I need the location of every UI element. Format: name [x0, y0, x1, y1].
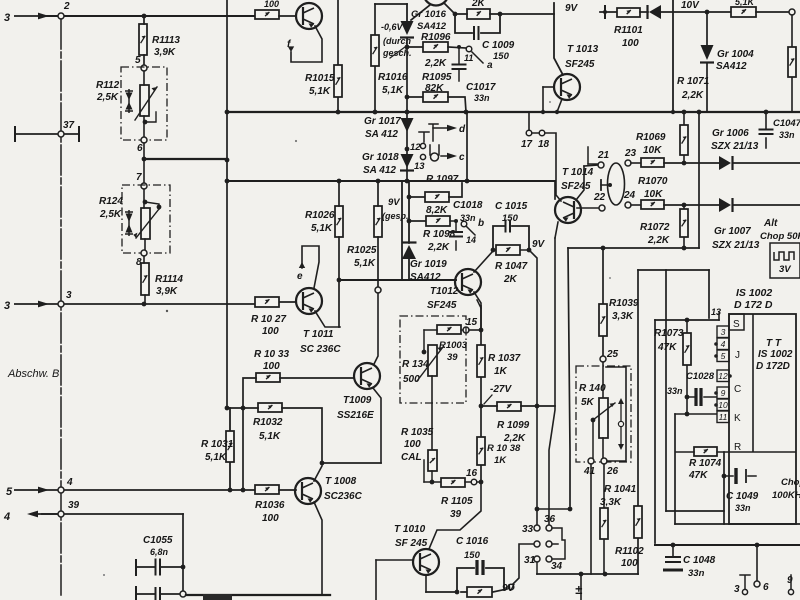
wire R1072 leads [683, 205, 685, 248]
resistor bottom cal [467, 587, 492, 597]
svg-text:4: 4 [66, 477, 73, 488]
resistor R1031 [226, 431, 234, 462]
svg-text:d: d [459, 124, 466, 135]
svg-text:17: 17 [521, 139, 533, 150]
wire to d arrow [433, 127, 448, 129]
capacitor C1055 [156, 559, 161, 576]
resistor R1074 [694, 447, 717, 456]
wire T1012 emitter to x481 [477, 300, 481, 308]
svg-text:3: 3 [4, 12, 10, 24]
terminal 3 bottom [740, 575, 750, 589]
wire to c arrow [441, 155, 448, 157]
wire C1049 leads [724, 475, 756, 477]
svg-text:Gr 1004: Gr 1004 [717, 49, 754, 60]
wire R1035 bottom [431, 471, 433, 482]
wire T1012 emitter down [474, 292, 481, 330]
svg-text:4: 4 [721, 339, 726, 349]
svg-text:8,2K: 8,2K [426, 205, 448, 216]
resistor 5,1K top [731, 7, 756, 17]
wire row39 arrow left [27, 511, 58, 518]
wire R1047 leads [493, 249, 529, 251]
svg-text:3: 3 [721, 327, 726, 337]
svg-text:b: b [478, 218, 484, 229]
wire row2 right [733, 204, 800, 206]
svg-text:R1072: R1072 [640, 222, 670, 233]
resistor R1105 [441, 478, 465, 487]
svg-text:SF245: SF245 [561, 181, 591, 192]
junction x407 y181 [405, 179, 410, 184]
junction pin11 row [685, 412, 690, 417]
transistor T1013 [554, 74, 580, 100]
wire pot bottom to 26 [602, 438, 604, 458]
svg-text:39: 39 [447, 352, 458, 363]
wire x638 vertical R1102 [637, 270, 639, 574]
svg-text:Abschw. B: Abschw. B [7, 368, 59, 380]
resistor R1027 [255, 297, 279, 307]
svg-text:R1016: R1016 [378, 72, 408, 83]
svg-text:2,2K: 2,2K [647, 235, 670, 246]
junction bus x766 [764, 110, 769, 115]
IC S box [729, 314, 744, 330]
wire pin13 [718, 313, 720, 320]
arrowhead e [299, 262, 305, 268]
svg-text:33n: 33n [474, 93, 490, 103]
svg-text:SA 412: SA 412 [365, 129, 398, 140]
svg-text:100: 100 [622, 38, 639, 49]
svg-text:T 1010: T 1010 [394, 524, 426, 535]
svg-text:c: c [459, 152, 465, 163]
IC pin boxes [717, 326, 729, 338]
wire R1098 right [450, 220, 456, 222]
svg-text:SF245: SF245 [427, 300, 457, 311]
svg-text:5,1K: 5,1K [309, 86, 331, 97]
capacitor C1047 [759, 130, 774, 135]
wire T-top emitter loop [291, 26, 322, 62]
svg-text:2,5K: 2,5K [99, 209, 122, 220]
svg-text:R 1099: R 1099 [497, 420, 530, 431]
svg-text:T T: T T [766, 338, 782, 349]
junction C1018 top [454, 219, 458, 223]
svg-text:SF245: SF245 [565, 59, 595, 70]
wire bottom bold y595 [186, 594, 330, 596]
svg-text:Gr 1018: Gr 1018 [362, 152, 399, 163]
svg-text:5,1K: 5,1K [382, 85, 404, 96]
transistor T1005 clipped at top edge [424, 0, 449, 6]
svg-text:21: 21 [597, 150, 610, 161]
svg-text:K: K [734, 413, 741, 424]
switch U loop [430, 145, 439, 155]
transistor T1006 top [296, 3, 322, 29]
wire vertical x407 mid [406, 38, 408, 181]
svg-text:R1070: R1070 [638, 176, 668, 187]
wire x424 up [423, 460, 425, 482]
svg-text:5,1K: 5,1K [354, 258, 376, 269]
node 5 open circle [141, 65, 147, 71]
svg-text:R 1105: R 1105 [441, 496, 473, 507]
wire x792 vertical [791, 15, 793, 112]
wire R1099 leads [481, 405, 555, 407]
svg-text:150: 150 [493, 51, 510, 62]
svg-text:e: e [297, 271, 303, 282]
svg-text:22: 22 [593, 192, 606, 203]
svg-text:5,1K: 5,1K [259, 431, 281, 442]
bus y112 main horizontal [227, 111, 800, 113]
svg-text:100: 100 [621, 558, 638, 569]
arrowhead f [288, 46, 294, 52]
node 6 open circle [141, 137, 147, 143]
junction x407 y97 [405, 95, 410, 100]
svg-text:SA412: SA412 [417, 21, 447, 32]
wire pot R112 leads [143, 71, 145, 137]
capacitor C1047 branch [765, 112, 767, 148]
svg-text:C1055: C1055 [143, 535, 173, 546]
small bar terminal y185 [600, 180, 602, 190]
varistor symbol R112 [125, 89, 133, 113]
junction 2K left [453, 12, 458, 17]
junction x684 row1 [682, 161, 687, 166]
wire x655 down long [654, 320, 656, 543]
svg-text:R 1071: R 1071 [677, 76, 710, 87]
wire T1008 collector [314, 466, 322, 481]
wire tap down to 41 [592, 420, 594, 458]
resistor R1041 [600, 508, 608, 539]
terminal tick left of R1101 [604, 6, 606, 18]
svg-text:C 1016: C 1016 [456, 536, 489, 547]
node 16 open circle [471, 479, 477, 485]
svg-text:R 1037: R 1037 [488, 353, 521, 364]
svg-text:R 1031: R 1031 [201, 439, 234, 450]
wire input row2 with arrow [14, 13, 49, 20]
svg-text:IS 1002: IS 1002 [758, 349, 793, 360]
resistor R1098 [426, 216, 450, 226]
junction x227 y159 [225, 158, 230, 163]
svg-text:C 1049: C 1049 [726, 491, 759, 502]
resistor 10K row1 [641, 158, 664, 167]
wire R1032 right corner down [282, 408, 322, 463]
wire T1005 emitter to Gr1016 [411, 5, 430, 20]
resistor R1101 [617, 8, 640, 17]
terminal circle 9 [788, 589, 793, 594]
wire R1003 left [424, 329, 437, 331]
svg-text:4: 4 [3, 511, 10, 523]
wire T1008 emitter down [314, 502, 322, 595]
node b open circle [461, 221, 467, 227]
junction bus x227 [225, 110, 230, 115]
resistor R1039 [599, 304, 607, 336]
switch blade a [472, 52, 483, 63]
wire R1096 left [407, 46, 423, 48]
junction bus x466 [464, 110, 469, 115]
wire R1095 right [448, 97, 466, 112]
resistor R1069 vertical [680, 125, 688, 155]
switch circle mid-left [534, 541, 540, 547]
node 23 open circle [625, 160, 631, 166]
junction x707 y12 [705, 10, 710, 15]
svg-text:41: 41 [583, 466, 596, 477]
svg-text:31: 31 [524, 555, 536, 566]
wire R1073 leads [686, 320, 688, 414]
terminal bar bottom cap [135, 587, 137, 600]
wire row1 to Gr1006 [664, 162, 719, 164]
svg-text:150: 150 [464, 550, 481, 561]
svg-text:2: 2 [63, 1, 70, 12]
resistor 100 top [255, 10, 279, 19]
junction y592 x457 [455, 590, 460, 595]
speck noise [295, 140, 297, 142]
wire R1031 vertical [229, 408, 231, 490]
wire node24 to 10K2 [631, 204, 641, 206]
svg-text:Alt: Alt [763, 218, 778, 229]
resistor R1003 [437, 325, 461, 334]
svg-text:5: 5 [721, 351, 726, 361]
svg-text:9V: 9V [532, 239, 546, 250]
wire to right node [756, 11, 789, 13]
node 39 open circle [58, 511, 64, 517]
wire x378 vertical [377, 181, 379, 287]
node 41 open circle [588, 458, 594, 464]
svg-text:T1012: T1012 [430, 286, 459, 297]
pot R112 wiper diagonal [135, 87, 157, 120]
pot R112 tap wire [145, 112, 156, 122]
wire x376 down [375, 560, 377, 600]
svg-text:SA 412: SA 412 [363, 165, 396, 176]
wire T1013 base down [542, 87, 544, 112]
svg-text:R1003: R1003 [439, 340, 468, 351]
junction R1073 top [685, 318, 690, 323]
junction bus x684 [682, 110, 687, 115]
wire between 17 18 [532, 132, 539, 134]
resistor R1114 [141, 263, 149, 295]
wire node41 down [590, 464, 592, 574]
svg-text:D 172 D: D 172 D [734, 299, 773, 311]
svg-text:13: 13 [414, 161, 425, 172]
wire 9V vertical x554 [554, 3, 563, 75]
arrowhead d [447, 125, 457, 131]
svg-text:37: 37 [63, 120, 75, 131]
wire x183 down to C1055 [182, 514, 184, 592]
wire R134 left lead [423, 330, 425, 352]
node open circle x378 [375, 287, 381, 293]
junction R1114 bottom row3 [142, 302, 147, 307]
node 18 open circle [539, 130, 545, 136]
pot R124 top dot [143, 200, 148, 205]
capacitor C1017 [452, 65, 467, 70]
junction R1101 left [603, 10, 607, 14]
resistor 8,2K [425, 192, 449, 202]
svg-text:±: ± [575, 582, 583, 597]
varistor symbol R124 [125, 210, 133, 236]
wire R1027 to T1011 [279, 301, 296, 303]
svg-text:100KHz: 100KHz [772, 490, 800, 501]
chopper waveform box [770, 243, 800, 278]
wire x709 down [708, 270, 710, 318]
junction y574 x581 [579, 572, 584, 577]
junction C1017 top [457, 45, 461, 49]
capacitor C1049 [734, 468, 737, 484]
wire row1 right [733, 162, 800, 164]
svg-text:11: 11 [719, 412, 728, 422]
diode Gr1004 [700, 45, 714, 63]
junction x339 y280 [337, 278, 342, 283]
svg-text:2K: 2K [471, 0, 486, 9]
potentiometer box R112 [121, 67, 167, 140]
wire vertical x407 top segment [406, 4, 408, 21]
wire T1009 emitter down [373, 388, 381, 463]
wire T1010 base [376, 559, 413, 561]
svg-text:S: S [733, 319, 740, 330]
svg-text:6: 6 [137, 143, 143, 154]
wire x603 vertical upper [602, 248, 604, 356]
svg-text:T 1013: T 1013 [567, 44, 599, 55]
wire R1095 left [407, 96, 423, 98]
resistor R1072 [680, 209, 688, 237]
svg-text:C 1009: C 1009 [482, 40, 515, 51]
svg-text:T1009: T1009 [343, 395, 372, 406]
wire R1098 left [409, 220, 426, 222]
resistor 2K [467, 9, 490, 19]
node 2 open circle [58, 13, 64, 19]
wire node21 left [588, 163, 598, 165]
wire x481 vertical [480, 306, 482, 482]
svg-text:SZX 21/13: SZX 21/13 [712, 240, 760, 251]
svg-text:T 1008: T 1008 [325, 476, 357, 487]
svg-text:R1032: R1032 [253, 417, 283, 428]
svg-text:R 1035: R 1035 [401, 427, 434, 438]
resistor R1095 [423, 92, 448, 102]
wire vertical x699 [698, 112, 700, 248]
node open circle bottom-left [180, 591, 186, 597]
pot R140 wiper [593, 403, 615, 420]
transistor T1014 [555, 197, 581, 223]
terminal bars row 37 [15, 127, 79, 141]
resistor R1015 [334, 65, 342, 97]
node 24 open circle [625, 202, 631, 208]
svg-text:SS216E: SS216E [337, 410, 374, 421]
adjust arrow R140 [620, 400, 622, 448]
potentiometer box R134 [400, 316, 466, 403]
wire R1032 left [227, 407, 258, 409]
transistor T1008 [295, 478, 321, 504]
svg-text:3: 3 [66, 290, 72, 301]
junction x684 row2 [682, 203, 687, 208]
chopper waveform [774, 252, 794, 260]
junction R1031 row5 [228, 488, 233, 493]
svg-text:R 1047: R 1047 [495, 261, 528, 272]
wire T1013 base [543, 86, 554, 88]
diode Gr1006 [719, 156, 733, 170]
svg-text:13: 13 [711, 307, 721, 317]
resistor R1016 [371, 35, 379, 66]
junction bus x699 [697, 110, 702, 115]
switch circle 33 [534, 525, 540, 531]
svg-text:11: 11 [464, 53, 473, 63]
svg-text:SA412: SA412 [410, 272, 441, 283]
resistor R1037 [477, 345, 485, 377]
svg-text:47K: 47K [657, 342, 677, 353]
svg-text:R 1041: R 1041 [604, 484, 637, 495]
pin10 dot [714, 403, 718, 407]
capacitor C1048 [665, 557, 681, 562]
wire R1113 leads [143, 16, 145, 65]
junction y574 x605 [603, 572, 608, 577]
capacitor C1009 [474, 26, 479, 40]
svg-text:R1026: R1026 [305, 210, 335, 221]
resistor R1025 [374, 206, 382, 237]
svg-text:J: J [735, 350, 740, 361]
node 26 open circle [601, 458, 607, 464]
capacitor C1018 [449, 232, 463, 237]
wire x581 down [580, 574, 582, 600]
junction R1113 top [142, 14, 147, 19]
node 8 open circle [141, 250, 147, 256]
svg-text:33n: 33n [779, 130, 795, 140]
wire row2 horizontal [40, 15, 255, 17]
svg-text:Gr 1016: Gr 1016 [411, 9, 447, 20]
svg-text:R112: R112 [96, 80, 120, 91]
wire row3 horizontal [40, 303, 255, 305]
svg-text:R1095: R1095 [422, 72, 452, 83]
transistor T1012 [455, 269, 481, 295]
svg-text:7: 7 [136, 172, 142, 183]
svg-text:Gr 1017: Gr 1017 [364, 116, 401, 127]
svg-text:C1018: C1018 [453, 200, 483, 211]
wire R1016 vertical [374, 4, 376, 112]
pot element R140 [599, 398, 608, 438]
node 9V circle [508, 584, 514, 590]
wire vertical x467 (y112-y181) [466, 112, 468, 181]
wire bold y159 to x227 [144, 158, 227, 160]
diode top right [648, 5, 662, 19]
svg-text:-0,6V: -0,6V [381, 22, 404, 32]
junction x227 y181 [225, 179, 230, 184]
wire 31 down [536, 562, 538, 574]
wire y280 to T1012 base [339, 279, 456, 281]
wire vertical x338 [337, 0, 339, 112]
parallel loop C1016 [457, 568, 504, 590]
svg-text:3,3K: 3,3K [600, 497, 622, 508]
wire bus2 to T1014 [554, 181, 556, 199]
svg-text:5,1K: 5,1K [205, 452, 227, 463]
parallel loop C1015/R1047 [493, 226, 529, 250]
node 11 open circle [466, 46, 472, 52]
svg-text:R124: R124 [99, 196, 123, 207]
resistor R1070 [641, 200, 664, 209]
svg-text:C: C [734, 384, 741, 395]
arrowhead c [447, 153, 457, 159]
resistor R1102 [634, 506, 642, 538]
switch circle mid-right [546, 541, 552, 547]
junction R1035 R1105 [430, 480, 435, 485]
svg-text:Gr 1007: Gr 1007 [714, 226, 751, 237]
wire row 37 [15, 133, 79, 135]
svg-text:3,9K: 3,9K [156, 286, 178, 297]
terminal 9 bottom [790, 575, 792, 589]
wire C1018 leads [455, 221, 457, 250]
wire node18 down to T1014 [545, 133, 561, 201]
dark patch bottom edge [203, 594, 232, 600]
node 21 open circle [598, 162, 604, 168]
junction x537 y509 [535, 507, 540, 512]
svg-text:R: R [734, 442, 741, 453]
svg-text:2,5K: 2,5K [96, 92, 119, 103]
junction 2K right [498, 12, 503, 17]
wire y4 top [375, 3, 407, 5]
terminal circle 3 [742, 589, 747, 594]
svg-text:39: 39 [450, 509, 462, 520]
wire bottom y574 [537, 573, 638, 575]
wire y248 long horizontal [568, 247, 699, 249]
svg-text:IS 1002: IS 1002 [736, 287, 772, 299]
